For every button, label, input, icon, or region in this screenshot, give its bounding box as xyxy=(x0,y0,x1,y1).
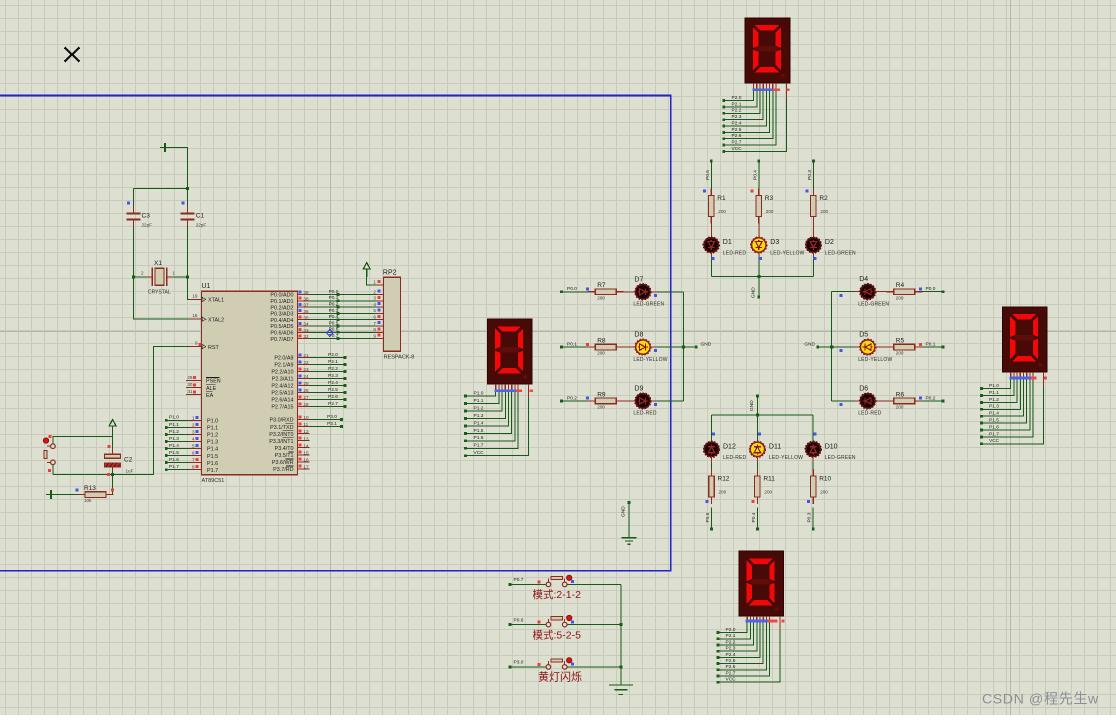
svg-text:P2.3: P2.3 xyxy=(328,373,338,379)
svg-text:P3.4/T0: P3.4/T0 xyxy=(275,446,294,452)
svg-text:XTAL1: XTAL1 xyxy=(208,298,224,304)
svg-text:P1.6: P1.6 xyxy=(474,435,484,441)
svg-text:7: 7 xyxy=(192,458,195,463)
svg-text:P2.1/A9: P2.1/A9 xyxy=(274,363,293,369)
svg-text:P2.5: P2.5 xyxy=(726,658,736,664)
svg-text:LED-YELLOW: LED-YELLOW xyxy=(770,251,804,257)
svg-text:200: 200 xyxy=(718,209,726,214)
svg-text:8: 8 xyxy=(373,327,376,332)
svg-text:R13: R13 xyxy=(84,485,96,492)
svg-text:CRYSTAL: CRYSTAL xyxy=(148,290,171,296)
svg-text:LED-GREEN: LED-GREEN xyxy=(858,302,889,308)
svg-text:R10: R10 xyxy=(819,476,831,483)
svg-text:P1.0: P1.0 xyxy=(989,383,999,389)
svg-text:7: 7 xyxy=(373,321,376,326)
svg-text:P2.3: P2.3 xyxy=(726,646,736,652)
svg-text:200: 200 xyxy=(820,209,828,214)
svg-text:P2.0/A8: P2.0/A8 xyxy=(274,356,293,362)
svg-text:P1.6: P1.6 xyxy=(169,457,179,463)
svg-text:P1.3: P1.3 xyxy=(989,404,999,410)
svg-text:P1.7: P1.7 xyxy=(169,464,179,470)
svg-text:P1.5: P1.5 xyxy=(207,454,218,460)
svg-text:3: 3 xyxy=(192,429,195,434)
svg-text:P3.6/WR: P3.6/WR xyxy=(272,460,294,466)
svg-text:R11: R11 xyxy=(763,476,775,483)
svg-text:P2.3: P2.3 xyxy=(732,114,742,120)
svg-text:200: 200 xyxy=(764,489,772,494)
svg-text:R9: R9 xyxy=(597,391,606,398)
svg-text:P0.4/AD4: P0.4/AD4 xyxy=(270,318,293,324)
svg-text:200: 200 xyxy=(597,295,605,300)
svg-text:P0.3: P0.3 xyxy=(807,170,813,180)
svg-text:31: 31 xyxy=(187,389,193,394)
svg-text:R2: R2 xyxy=(819,195,828,202)
svg-text:22: 22 xyxy=(303,360,309,365)
svg-text:VCC: VCC xyxy=(989,438,1000,444)
svg-text:P3.3/INT1: P3.3/INT1 xyxy=(269,439,293,445)
svg-text:P3.1/TXD: P3.1/TXD xyxy=(270,425,293,431)
svg-text:28: 28 xyxy=(303,402,309,407)
svg-text:P1.2: P1.2 xyxy=(169,429,179,435)
svg-text:P1.7: P1.7 xyxy=(207,468,218,474)
svg-text:P1.5: P1.5 xyxy=(474,428,484,434)
svg-text:R12: R12 xyxy=(718,476,730,483)
svg-text:P0.3: P0.3 xyxy=(807,512,813,522)
svg-text:P0.7/AD7: P0.7/AD7 xyxy=(270,337,293,343)
svg-text:P0.6/AD6: P0.6/AD6 xyxy=(270,331,293,337)
svg-text:LED-YELLOW: LED-YELLOW xyxy=(769,455,803,461)
svg-text:22pF: 22pF xyxy=(142,223,153,228)
svg-text:P0.4: P0.4 xyxy=(751,512,757,522)
svg-text:P3.0: P3.0 xyxy=(327,414,337,420)
svg-text:LED-YELLOW: LED-YELLOW xyxy=(633,357,667,363)
svg-text:P2.7/A15: P2.7/A15 xyxy=(271,405,293,411)
svg-text:P2.3/A11: P2.3/A11 xyxy=(272,377,294,383)
svg-text:R7: R7 xyxy=(597,282,606,289)
svg-text:4: 4 xyxy=(373,302,376,307)
svg-text:37: 37 xyxy=(303,303,309,308)
svg-text:1: 1 xyxy=(373,279,376,284)
svg-text:VCC: VCC xyxy=(474,450,485,456)
svg-text:D11: D11 xyxy=(769,443,781,450)
svg-text:模式:5-2-5: 模式:5-2-5 xyxy=(533,628,582,641)
svg-text:200: 200 xyxy=(896,295,904,300)
svg-text:P3.7/RD: P3.7/RD xyxy=(273,467,293,473)
svg-text:21: 21 xyxy=(303,353,309,358)
svg-text:P2.2: P2.2 xyxy=(732,108,742,114)
svg-text:17: 17 xyxy=(303,464,309,469)
svg-text:P1.5: P1.5 xyxy=(989,418,999,424)
svg-text:29: 29 xyxy=(187,375,193,380)
svg-text:P0.5: P0.5 xyxy=(705,170,711,180)
svg-text:200: 200 xyxy=(896,405,904,410)
svg-text:P0.2: P0.2 xyxy=(926,395,936,401)
svg-text:P2.1: P2.1 xyxy=(732,101,742,107)
svg-text:P2.0: P2.0 xyxy=(328,352,338,358)
svg-text:P1.1: P1.1 xyxy=(989,390,999,396)
svg-text:P2.2: P2.2 xyxy=(328,366,338,372)
svg-text:R8: R8 xyxy=(597,338,606,345)
svg-text:U1: U1 xyxy=(202,283,211,290)
svg-text:P2.2/A10: P2.2/A10 xyxy=(271,370,293,376)
svg-text:LED-GREEN: LED-GREEN xyxy=(825,455,856,461)
svg-text:P2.0: P2.0 xyxy=(732,95,742,101)
svg-text:P0.0: P0.0 xyxy=(926,286,936,292)
svg-text:200: 200 xyxy=(820,489,828,494)
svg-text:C3: C3 xyxy=(142,213,151,220)
svg-text:15: 15 xyxy=(303,450,309,455)
svg-text:D12: D12 xyxy=(723,443,736,450)
svg-text:D7: D7 xyxy=(634,276,643,283)
svg-text:25: 25 xyxy=(303,381,309,386)
svg-text:RESPACK-8: RESPACK-8 xyxy=(384,355,415,361)
svg-text:200: 200 xyxy=(766,209,774,214)
svg-text:D1: D1 xyxy=(723,239,732,246)
svg-text:LED-RED: LED-RED xyxy=(633,411,657,417)
svg-text:P2.0: P2.0 xyxy=(726,627,736,633)
svg-text:P3.0/RXD: P3.0/RXD xyxy=(270,418,294,424)
svg-text:P2.6: P2.6 xyxy=(732,133,742,139)
svg-text:P2.6: P2.6 xyxy=(726,664,736,670)
svg-text:P1.6: P1.6 xyxy=(207,461,218,467)
svg-text:GND: GND xyxy=(751,287,757,298)
svg-text:P2.4: P2.4 xyxy=(732,120,742,126)
svg-text:30: 30 xyxy=(187,382,193,387)
svg-text:R4: R4 xyxy=(896,282,905,289)
svg-text:D4: D4 xyxy=(859,276,868,283)
svg-text:P1.0: P1.0 xyxy=(474,391,484,397)
svg-text:P2.7: P2.7 xyxy=(726,670,736,676)
svg-text:P0.1/AD1: P0.1/AD1 xyxy=(270,299,293,305)
svg-text:LED-GREEN: LED-GREEN xyxy=(633,302,664,308)
svg-text:P2.1: P2.1 xyxy=(328,359,338,365)
svg-text:D2: D2 xyxy=(825,239,834,246)
svg-text:39: 39 xyxy=(303,290,309,295)
svg-text:2: 2 xyxy=(373,289,376,294)
svg-text:14: 14 xyxy=(303,443,309,448)
svg-text:P0.7: P0.7 xyxy=(514,577,524,583)
svg-text:P0.3/AD3: P0.3/AD3 xyxy=(270,312,293,318)
svg-text:5: 5 xyxy=(373,308,376,313)
svg-text:P1.3: P1.3 xyxy=(474,413,484,419)
svg-text:33: 33 xyxy=(303,328,309,333)
svg-text:P0.1: P0.1 xyxy=(926,342,936,348)
svg-text:200: 200 xyxy=(597,351,605,356)
svg-text:D3: D3 xyxy=(770,239,779,246)
svg-text:1: 1 xyxy=(192,415,195,420)
svg-text:RP2: RP2 xyxy=(383,270,397,277)
svg-text:2: 2 xyxy=(141,271,144,276)
svg-text:10: 10 xyxy=(303,415,309,420)
svg-text:P1.5: P1.5 xyxy=(169,450,179,456)
svg-text:P1.1: P1.1 xyxy=(169,422,179,428)
svg-text:RST: RST xyxy=(208,345,219,351)
svg-text:ALE: ALE xyxy=(206,386,217,392)
svg-text:PSEN: PSEN xyxy=(206,379,221,385)
svg-text:1uF: 1uF xyxy=(126,469,134,474)
svg-text:200: 200 xyxy=(597,405,605,410)
svg-text:P3.0: P3.0 xyxy=(514,660,524,666)
svg-text:10k: 10k xyxy=(84,498,92,503)
svg-text:5: 5 xyxy=(192,444,195,449)
svg-text:P2.6: P2.6 xyxy=(328,394,338,400)
svg-text:P0.4: P0.4 xyxy=(752,170,758,180)
svg-text:VCC: VCC xyxy=(732,146,743,152)
svg-text:P1.0: P1.0 xyxy=(169,415,179,421)
svg-text:19: 19 xyxy=(192,293,198,298)
svg-text:P2.1: P2.1 xyxy=(726,633,736,639)
svg-text:D5: D5 xyxy=(859,332,868,339)
svg-text:32: 32 xyxy=(303,334,309,339)
svg-text:X1: X1 xyxy=(154,260,162,267)
svg-text:P1.1: P1.1 xyxy=(207,426,218,432)
svg-text:3: 3 xyxy=(373,296,376,301)
svg-text:P1.2: P1.2 xyxy=(207,433,218,439)
svg-text:GND: GND xyxy=(701,341,712,347)
svg-text:D10: D10 xyxy=(825,443,838,450)
svg-text:P2.7: P2.7 xyxy=(732,139,742,145)
svg-text:P0.5: P0.5 xyxy=(705,512,711,522)
svg-text:P3.2/INT0: P3.2/INT0 xyxy=(269,432,293,438)
svg-text:P1.3: P1.3 xyxy=(207,440,218,446)
svg-text:GND: GND xyxy=(804,341,815,347)
svg-text:R3: R3 xyxy=(765,195,774,202)
svg-text:P1.4: P1.4 xyxy=(169,443,179,449)
svg-text:P3.1: P3.1 xyxy=(327,421,337,427)
svg-text:18: 18 xyxy=(192,313,198,318)
svg-text:P1.4: P1.4 xyxy=(474,420,484,426)
svg-text:13: 13 xyxy=(303,436,309,441)
svg-text:P1.4: P1.4 xyxy=(989,411,999,417)
svg-text:P0.6: P0.6 xyxy=(514,617,524,623)
svg-text:R5: R5 xyxy=(896,338,905,345)
svg-text:2: 2 xyxy=(192,422,195,427)
svg-text:16: 16 xyxy=(303,457,309,462)
svg-text:LED-GREEN: LED-GREEN xyxy=(825,251,856,257)
svg-text:VCC: VCC xyxy=(726,677,737,683)
svg-text:P1.7: P1.7 xyxy=(474,443,484,449)
svg-text:P2.4/A12: P2.4/A12 xyxy=(271,384,293,390)
svg-text:P1.2: P1.2 xyxy=(474,405,484,411)
svg-text:22pF: 22pF xyxy=(196,223,207,228)
svg-text:200: 200 xyxy=(896,351,904,356)
svg-text:6: 6 xyxy=(192,451,195,456)
svg-text:9: 9 xyxy=(195,341,198,346)
svg-text:EA: EA xyxy=(206,393,214,399)
svg-text:P2.7: P2.7 xyxy=(328,401,338,407)
svg-text:LED-RED: LED-RED xyxy=(858,411,882,417)
svg-text:LED-YELLOW: LED-YELLOW xyxy=(858,357,892,363)
svg-text:P2.4: P2.4 xyxy=(328,380,338,386)
svg-text:9: 9 xyxy=(373,333,376,338)
svg-text:D8: D8 xyxy=(634,332,643,339)
svg-text:27: 27 xyxy=(303,395,309,400)
svg-text:P3.5/T1: P3.5/T1 xyxy=(275,453,294,459)
svg-text:R1: R1 xyxy=(717,195,726,202)
svg-text:P1.0: P1.0 xyxy=(207,419,218,425)
svg-text:11: 11 xyxy=(303,422,308,427)
svg-text:C1: C1 xyxy=(196,213,205,220)
svg-text:P2.5/A13: P2.5/A13 xyxy=(271,391,293,397)
svg-text:LED-RED: LED-RED xyxy=(723,455,747,461)
svg-text:P2.5: P2.5 xyxy=(732,127,742,133)
svg-text:23: 23 xyxy=(303,367,309,372)
svg-text:P1.2: P1.2 xyxy=(989,397,999,403)
svg-text:6: 6 xyxy=(373,315,376,320)
svg-text:GND: GND xyxy=(749,400,755,411)
svg-text:P1.6: P1.6 xyxy=(989,424,999,430)
svg-text:CSDN @程先生w: CSDN @程先生w xyxy=(982,692,1099,708)
svg-text:34: 34 xyxy=(303,322,309,327)
svg-text:35: 35 xyxy=(303,315,309,320)
svg-text:P1.4: P1.4 xyxy=(207,447,218,453)
svg-text:C2: C2 xyxy=(124,457,133,464)
svg-text:R6: R6 xyxy=(896,391,905,398)
svg-text:P1.3: P1.3 xyxy=(169,436,179,442)
svg-text:1: 1 xyxy=(173,271,176,276)
svg-text:XTAL2: XTAL2 xyxy=(208,317,224,323)
svg-text:AT89C51: AT89C51 xyxy=(202,478,225,484)
svg-text:P2.6/A14: P2.6/A14 xyxy=(271,398,293,404)
svg-text:36: 36 xyxy=(303,309,309,314)
svg-text:P1.7: P1.7 xyxy=(989,431,999,437)
svg-text:24: 24 xyxy=(303,374,309,379)
svg-text:P1.1: P1.1 xyxy=(474,398,484,404)
svg-text:8: 8 xyxy=(192,465,195,470)
svg-text:D6: D6 xyxy=(859,385,868,392)
svg-text:D9: D9 xyxy=(634,385,643,392)
svg-text:模式:2-1-2: 模式:2-1-2 xyxy=(533,588,582,601)
svg-text:26: 26 xyxy=(303,388,309,393)
svg-text:P2.4: P2.4 xyxy=(726,652,736,658)
svg-text:GND: GND xyxy=(621,506,627,517)
svg-text:38: 38 xyxy=(303,296,309,301)
svg-text:P2.2: P2.2 xyxy=(726,639,736,645)
svg-text:P0.5/AD5: P0.5/AD5 xyxy=(270,324,293,330)
svg-text:LED-RED: LED-RED xyxy=(723,251,747,257)
svg-text:P2.5: P2.5 xyxy=(328,387,338,393)
svg-text:12: 12 xyxy=(303,429,309,434)
svg-text:4: 4 xyxy=(192,436,195,441)
svg-text:P0.0/AD0: P0.0/AD0 xyxy=(270,293,293,299)
svg-text:P0.2/AD2: P0.2/AD2 xyxy=(270,305,293,311)
svg-text:黄灯闪烁: 黄灯闪烁 xyxy=(538,670,582,684)
svg-text:200: 200 xyxy=(719,489,727,494)
